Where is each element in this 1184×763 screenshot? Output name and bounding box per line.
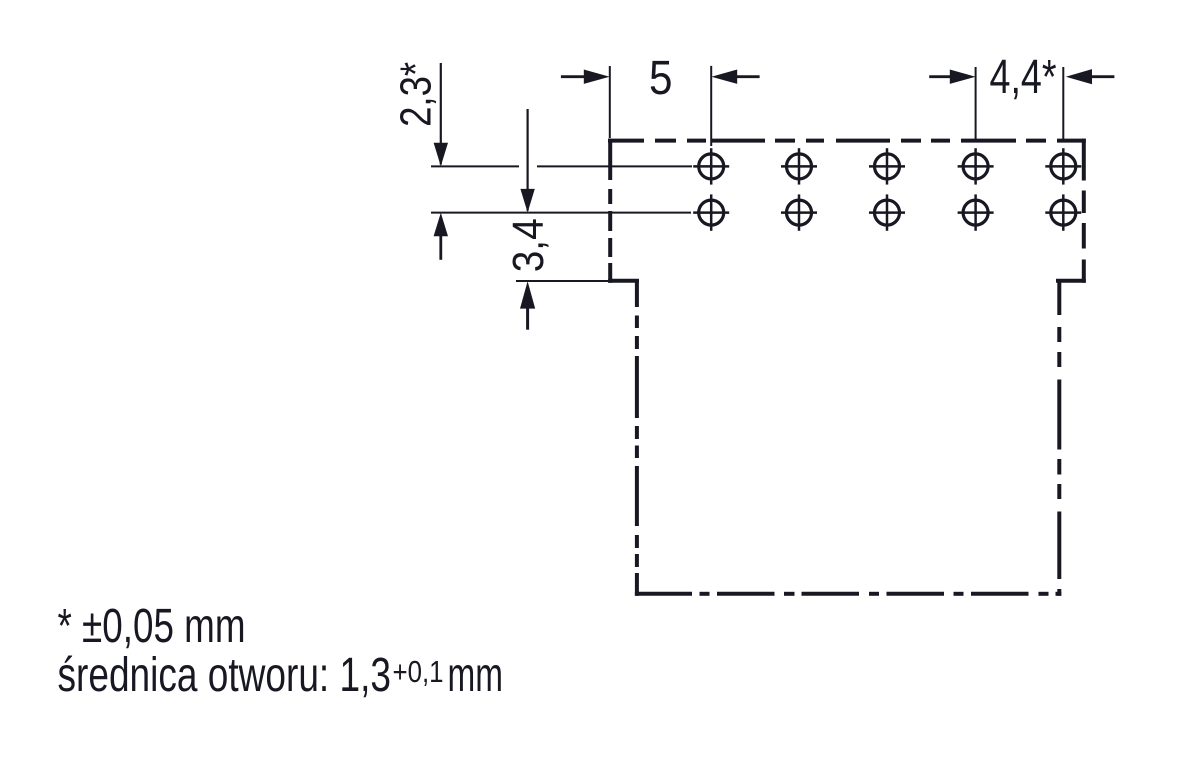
svg-text:2,3*: 2,3* — [392, 62, 441, 127]
svg-text:3,4: 3,4 — [504, 218, 553, 272]
svg-text:5: 5 — [649, 52, 673, 105]
svg-text:* ±0,05 mm: * ±0,05 mm — [58, 600, 246, 653]
svg-text:średnica otworu: 1,3: średnica otworu: 1,3 — [58, 649, 392, 702]
svg-text:mm: mm — [448, 649, 504, 702]
svg-text:+0,1: +0,1 — [393, 654, 444, 689]
svg-text:4,4*: 4,4* — [990, 51, 1057, 104]
